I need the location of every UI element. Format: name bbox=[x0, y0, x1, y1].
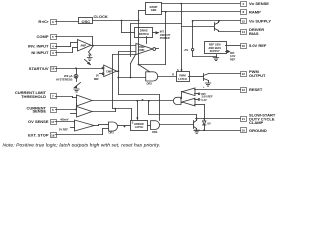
svg-text:SUPPLY: SUPPLY bbox=[210, 49, 220, 53]
svg-text:RAMP: RAMP bbox=[249, 9, 261, 14]
svg-text:200 μA: 200 μA bbox=[64, 74, 73, 78]
svg-text:GEN: GEN bbox=[151, 8, 157, 12]
svg-text:OR1: OR1 bbox=[109, 130, 115, 134]
svg-text:SENSE: SENSE bbox=[32, 109, 46, 114]
svg-text:0.4V: 0.4V bbox=[201, 98, 207, 102]
svg-text:CMP: CMP bbox=[106, 69, 112, 73]
svg-text:THRESHOLD: THRESHOLD bbox=[21, 94, 46, 99]
svg-text:11: 11 bbox=[242, 117, 246, 121]
svg-text:16: 16 bbox=[51, 67, 55, 71]
svg-text:EXT. STOP: EXT. STOP bbox=[28, 133, 49, 138]
svg-text:S: S bbox=[177, 68, 179, 72]
svg-text:Note: Positive true logic; lat: Note: Positive true logic; latch outputs… bbox=[3, 143, 161, 149]
svg-text:NI INPUT: NI INPUT bbox=[31, 50, 49, 55]
svg-text:5.0V REF: 5.0V REF bbox=[249, 43, 267, 48]
svg-text:RESET: RESET bbox=[249, 87, 263, 92]
svg-text:3V REF: 3V REF bbox=[59, 127, 68, 131]
svg-text:CLOCK: CLOCK bbox=[94, 14, 108, 19]
svg-text:REF: REF bbox=[94, 77, 100, 81]
svg-text:400mV: 400mV bbox=[60, 117, 69, 121]
svg-text:R: R bbox=[137, 116, 139, 120]
svg-text:AMP: AMP bbox=[80, 44, 86, 48]
svg-text:CLAMP: CLAMP bbox=[249, 120, 264, 125]
svg-text:LATCH: LATCH bbox=[178, 77, 187, 81]
svg-text:S: S bbox=[132, 121, 134, 125]
svg-text:CMD: CMD bbox=[139, 48, 145, 52]
svg-text:COMP: COMP bbox=[37, 34, 49, 39]
svg-text:INV. INPUT: INV. INPUT bbox=[28, 44, 49, 49]
svg-text:BIAS: BIAS bbox=[249, 31, 259, 36]
svg-text:OV SENSE: OV SENSE bbox=[28, 119, 49, 124]
svg-text:+5V: +5V bbox=[184, 48, 189, 52]
svg-text:R: R bbox=[172, 73, 174, 77]
svg-text:12: 12 bbox=[242, 72, 246, 76]
svg-text:GROUND: GROUND bbox=[249, 128, 267, 133]
svg-text:LATCH: LATCH bbox=[135, 125, 144, 129]
svg-text:POWER: POWER bbox=[160, 36, 170, 40]
svg-text:13: 13 bbox=[242, 88, 246, 92]
svg-text:15: 15 bbox=[242, 19, 246, 23]
svg-text:OR2: OR2 bbox=[147, 81, 153, 85]
svg-text:18: 18 bbox=[51, 133, 55, 137]
svg-text:OSC: OSC bbox=[82, 19, 91, 24]
svg-text:HYSTERESIS: HYSTERESIS bbox=[56, 78, 73, 82]
svg-text:OUTPUT: OUTPUT bbox=[249, 73, 266, 78]
svg-text:SWITCH: SWITCH bbox=[139, 32, 149, 36]
svg-text:3.0V REF: 3.0V REF bbox=[202, 94, 214, 98]
svg-text:14: 14 bbox=[242, 30, 246, 34]
svg-text:16: 16 bbox=[242, 44, 246, 48]
svg-text:START/UV: START/UV bbox=[29, 66, 49, 71]
svg-text:REF: REF bbox=[230, 57, 236, 61]
svg-text:10: 10 bbox=[242, 129, 246, 133]
svg-text:OR3: OR3 bbox=[152, 130, 158, 134]
svg-text:17: 17 bbox=[51, 120, 55, 124]
svg-text:6V: 6V bbox=[208, 121, 211, 125]
